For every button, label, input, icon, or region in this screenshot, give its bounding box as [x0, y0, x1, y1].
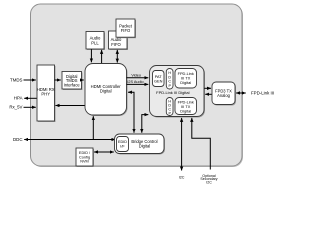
box FPD-Link III TX Digital lower: [175, 98, 197, 115]
svg-text:PLL: PLL: [91, 40, 99, 45]
svg-text:Analog: Analog: [217, 93, 230, 98]
svg-text:Digital: Digital: [100, 88, 112, 93]
wire Rx_5V input: [9, 105, 35, 110]
wire HPA output: [14, 96, 37, 101]
box Audio FIFO: [109, 31, 129, 50]
box Audio PLL: [86, 32, 105, 51]
svg-text:TMDS: TMDS: [10, 77, 23, 82]
wire TMDS input: [10, 77, 36, 82]
svg-text:Rx_5V: Rx_5V: [9, 105, 22, 110]
svg-text:NVM: NVM: [80, 160, 88, 164]
box FPD-Link III Digital outer: [150, 66, 206, 118]
box FPD3 TX Analog: [212, 82, 236, 106]
wire FPD3 TX analog to FPD-Link digital: [205, 93, 212, 95]
wire audio PLL to controller: [90, 49, 92, 62]
svg-text:I2S Audio: I2S Audio: [127, 80, 143, 84]
svg-text:PHY: PHY: [41, 92, 50, 97]
wire DDC to HDMI controller: [92, 116, 94, 139]
wire controller to audio PLL: [101, 50, 103, 63]
wire Video: [127, 73, 149, 77]
svg-text:I2C: I2C: [206, 181, 212, 185]
wire I2S Audio: [127, 80, 149, 84]
svg-text:Digital: Digital: [180, 108, 191, 113]
svg-text:DDC: DDC: [13, 137, 23, 142]
box Digital TMDS Interface: [62, 72, 83, 91]
box PAT GEN: [153, 71, 165, 87]
box FPD-Link III TX Digital upper: [175, 69, 197, 89]
box HDCP upper: [166, 69, 173, 90]
svg-text:I2C: I2C: [179, 175, 185, 179]
svg-text:FPD-Link III Digital: FPD-Link III Digital: [156, 90, 189, 95]
box HDMI Controller Digital: [85, 64, 128, 117]
wire audio FIFO to controller bidirectional: [116, 50, 118, 63]
svg-text:Video: Video: [131, 73, 141, 77]
wire NVM to EDID I/F bidirectional: [94, 151, 114, 153]
chip boundary: [31, 4, 244, 167]
svg-text:FIFO: FIFO: [111, 42, 121, 47]
svg-text:FIFO: FIFO: [121, 28, 131, 33]
svg-text:Digital: Digital: [139, 144, 150, 149]
box HDCP lower: [166, 98, 173, 116]
svg-text:HPA: HPA: [14, 96, 23, 101]
wire optional secondary I2C: [192, 118, 218, 185]
wire FPD-Link digital to FPD3 TX analog: [204, 87, 211, 89]
wire FPD-Link III output bidirectional: [236, 90, 274, 95]
box Bridge Control Digital: [115, 134, 166, 155]
box EDID Config NVM: [76, 148, 94, 167]
wire I2C: [179, 118, 185, 179]
wire bridge control to FPD-Link digital bidirectional: [142, 115, 149, 133]
box Packet FIFO: [116, 19, 136, 38]
svg-text:Digital: Digital: [180, 80, 191, 85]
svg-text:FPD-Link III: FPD-Link III: [251, 90, 274, 95]
box HDMI RX PHY: [37, 65, 56, 122]
wire TMDS interface to controller: [82, 79, 84, 81]
box EDID I/F: [117, 137, 129, 152]
svg-text:GEN: GEN: [154, 78, 163, 83]
wire controller to bridge control bidirectional: [128, 92, 134, 133]
svg-text:I/F: I/F: [120, 145, 125, 149]
wire PHY to TMDS interface: [55, 79, 61, 81]
wire controller to PHY: [56, 105, 86, 107]
svg-text:Interface: Interface: [64, 83, 81, 88]
svg-text:EDID: EDID: [118, 140, 127, 144]
wire DDC bus: [13, 137, 115, 142]
